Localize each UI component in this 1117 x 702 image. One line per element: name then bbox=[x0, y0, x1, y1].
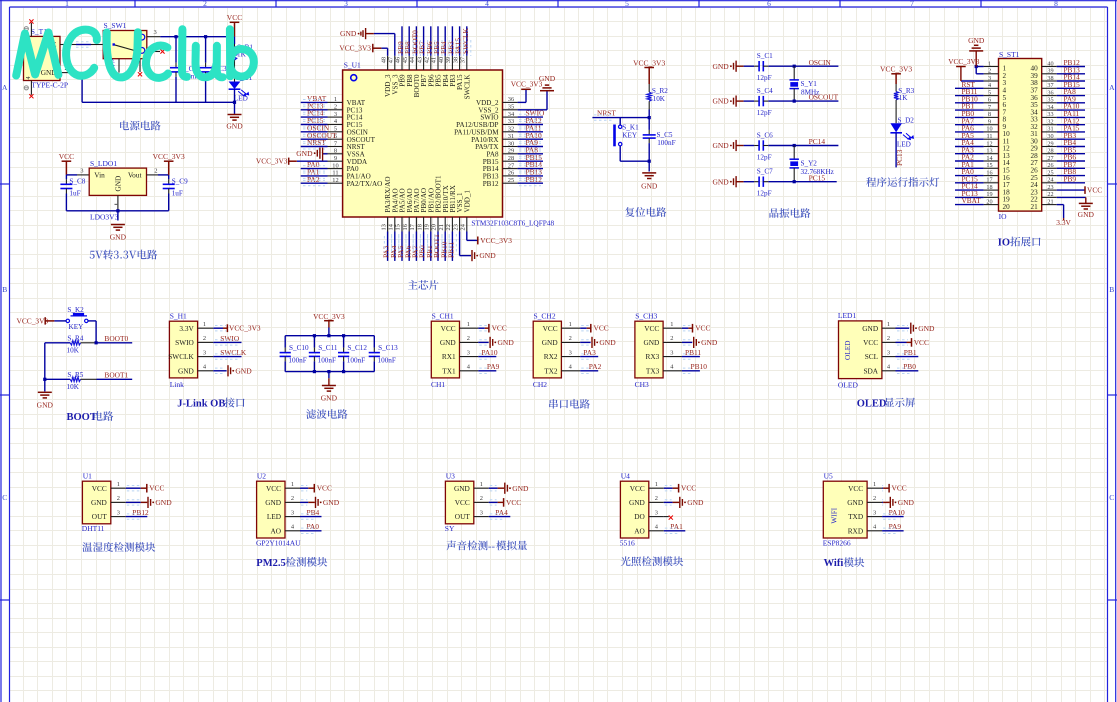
svg-text:VCC: VCC bbox=[543, 324, 558, 333]
svg-text:1: 1 bbox=[117, 481, 120, 488]
svg-text:GND: GND bbox=[712, 141, 729, 150]
power GND ldo bbox=[111, 225, 125, 231]
svg-text:SY: SY bbox=[445, 524, 455, 533]
svg-text:A: A bbox=[2, 83, 8, 92]
svg-text:VCC: VCC bbox=[914, 338, 929, 347]
svg-text:PA10: PA10 bbox=[889, 508, 905, 517]
svg-text:21: 21 bbox=[1031, 203, 1039, 211]
svg-text:TX3: TX3 bbox=[646, 366, 660, 375]
svg-text:U3: U3 bbox=[446, 471, 455, 480]
svg-text:3.3V: 3.3V bbox=[179, 324, 194, 333]
svg-text:S_Y1: S_Y1 bbox=[801, 80, 818, 88]
svg-text:OLED: OLED bbox=[843, 341, 852, 360]
svg-text:2: 2 bbox=[203, 0, 207, 8]
svg-text:--: -- bbox=[488, 541, 495, 552]
svg-text:U1: U1 bbox=[83, 471, 92, 480]
power VCC_3V3 vdd2 bbox=[518, 101, 526, 103]
svg-text:14: 14 bbox=[986, 155, 992, 162]
svg-text:12: 12 bbox=[986, 140, 992, 147]
module U2 GP2Y1014AU bbox=[257, 481, 285, 538]
T1 top pin bbox=[30, 23, 32, 37]
svg-text:S_R5: S_R5 bbox=[67, 371, 83, 379]
svg-text:GND: GND bbox=[498, 338, 515, 347]
svg-text:4: 4 bbox=[988, 82, 991, 89]
connector LED1 OLED bbox=[839, 321, 882, 379]
svg-text:1: 1 bbox=[569, 321, 572, 328]
wire oled sda bbox=[896, 370, 919, 372]
svg-text:PA9: PA9 bbox=[487, 362, 500, 371]
svg-text:S_ST1: S_ST1 bbox=[999, 50, 1020, 59]
svg-text:VCC: VCC bbox=[227, 13, 242, 22]
svg-text:100nF: 100nF bbox=[657, 139, 675, 147]
svg-text:3: 3 bbox=[117, 509, 120, 516]
svg-text:OSCOUT: OSCOUT bbox=[809, 93, 839, 102]
MCUclub logo bbox=[16, 29, 254, 78]
svg-text:2: 2 bbox=[887, 335, 890, 342]
svg-text:GND: GND bbox=[712, 62, 729, 71]
svg-text:GND: GND bbox=[712, 177, 729, 186]
svg-text:18: 18 bbox=[986, 184, 992, 191]
svg-text:40: 40 bbox=[438, 57, 445, 63]
svg-text:ESP8266: ESP8266 bbox=[823, 538, 851, 547]
svg-text:PA0: PA0 bbox=[307, 522, 320, 531]
svg-text:PC14: PC14 bbox=[809, 137, 826, 146]
svg-text:GND: GND bbox=[512, 484, 529, 493]
svg-text:S_LDO1: S_LDO1 bbox=[90, 159, 117, 168]
wire oled scl bbox=[896, 356, 919, 358]
svg-text:SWCLK: SWCLK bbox=[168, 352, 194, 361]
svg-text:11: 11 bbox=[987, 133, 993, 140]
capacitor S_C11 100nF bbox=[313, 336, 315, 348]
crystal S_Y2 32.768KHz bbox=[793, 146, 795, 160]
svg-text:PA2: PA2 bbox=[307, 175, 320, 184]
power VCC_3V3 jlink bbox=[213, 327, 223, 329]
ST1 left stubs and numbers bbox=[984, 66, 999, 68]
title boot bbox=[67, 411, 114, 423]
mcu S_U1 body bbox=[343, 70, 503, 217]
capacitor S_C4 12pF row OSCOUT bbox=[734, 96, 737, 107]
SW1 pin3 wire bbox=[147, 36, 161, 38]
wire ldo gnd bbox=[117, 195, 119, 210]
pushbutton S_K1 KEY bbox=[619, 125, 622, 128]
svg-text:S_C8: S_C8 bbox=[69, 177, 85, 185]
svg-text:100nF: 100nF bbox=[288, 357, 306, 365]
svg-text:16: 16 bbox=[402, 224, 409, 230]
svg-text:1: 1 bbox=[988, 60, 991, 67]
capacitor S_C7 12pF row PC15 bbox=[734, 176, 737, 187]
svg-text:VBAT: VBAT bbox=[962, 196, 982, 205]
mcu top pin names rotated bbox=[384, 74, 471, 100]
svg-text:12pF: 12pF bbox=[757, 109, 772, 117]
svg-text:8: 8 bbox=[988, 111, 991, 118]
module U5 ESP8266 wifi bbox=[823, 481, 867, 538]
svg-text:PA2: PA2 bbox=[589, 362, 602, 371]
title power block bbox=[120, 121, 161, 131]
svg-text:WIFI: WIFI bbox=[829, 507, 838, 523]
svg-text:3: 3 bbox=[203, 349, 206, 356]
svg-text:1: 1 bbox=[887, 321, 890, 328]
svg-text:VCC: VCC bbox=[848, 484, 863, 493]
svg-text:S_Y2: S_Y2 bbox=[801, 160, 818, 168]
title wifi bbox=[824, 557, 865, 569]
svg-text:SWCLK: SWCLK bbox=[463, 74, 471, 100]
svg-text:25: 25 bbox=[1047, 169, 1053, 176]
wire key bottom bbox=[619, 146, 621, 161]
svg-text:24: 24 bbox=[1047, 177, 1053, 184]
svg-text:J-Link OB: J-Link OB bbox=[177, 399, 225, 410]
svg-text:9: 9 bbox=[334, 155, 337, 162]
svg-text:VCC: VCC bbox=[455, 498, 470, 507]
svg-text:RX2: RX2 bbox=[544, 352, 558, 361]
mcu left pin stubs and numbers bbox=[328, 101, 343, 103]
svg-text:6: 6 bbox=[988, 97, 991, 104]
svg-text:TYPE-C-2P: TYPE-C-2P bbox=[31, 81, 68, 90]
svg-text:S_CH1: S_CH1 bbox=[432, 312, 454, 321]
title runled bbox=[866, 177, 939, 187]
svg-text:41: 41 bbox=[431, 57, 438, 63]
svg-text:32: 32 bbox=[1047, 119, 1053, 126]
svg-text:NRST: NRST bbox=[597, 108, 616, 117]
svg-text:17: 17 bbox=[409, 223, 416, 230]
svg-text:10K: 10K bbox=[67, 347, 80, 355]
svg-text:VCC: VCC bbox=[92, 484, 107, 493]
title dht11 bbox=[82, 542, 155, 552]
svg-text:VCC: VCC bbox=[59, 152, 74, 161]
svg-text:10K: 10K bbox=[653, 95, 666, 103]
power VCC_3V3 vdd1 bbox=[466, 232, 468, 241]
svg-text:KEY: KEY bbox=[622, 132, 638, 140]
svg-text:RXD: RXD bbox=[848, 526, 863, 535]
wire ldo bottom rail bbox=[66, 210, 168, 212]
svg-text:PB11: PB11 bbox=[685, 348, 701, 357]
svg-text:GND: GND bbox=[110, 233, 127, 242]
wire cap to gnd reset bbox=[648, 160, 651, 163]
svg-text:10: 10 bbox=[986, 126, 992, 133]
svg-text:22: 22 bbox=[1047, 191, 1053, 198]
connector S_CH2 bbox=[533, 321, 561, 378]
svg-text:GND: GND bbox=[687, 498, 704, 507]
svg-text:PB4: PB4 bbox=[307, 508, 320, 517]
zone labels bbox=[2, 0, 1115, 502]
svg-text:31: 31 bbox=[508, 133, 514, 140]
svg-text:GND: GND bbox=[454, 484, 470, 493]
svg-text:33: 33 bbox=[1047, 111, 1053, 118]
svg-text:44: 44 bbox=[409, 56, 416, 63]
svg-text:GND: GND bbox=[542, 338, 558, 347]
wire vcc to ldo vin bbox=[66, 174, 77, 176]
svg-text:C: C bbox=[1109, 493, 1114, 502]
svg-text:TXD: TXD bbox=[848, 512, 863, 521]
svg-text:PB0: PB0 bbox=[903, 362, 916, 371]
wire key2 left bbox=[54, 320, 66, 322]
svg-text:GND: GND bbox=[114, 176, 123, 192]
svg-text:S_C4: S_C4 bbox=[757, 87, 773, 95]
ST1 right net wires bbox=[1057, 66, 1085, 68]
svg-text:IO: IO bbox=[998, 238, 1010, 249]
LED S_D2 bbox=[890, 123, 902, 132]
svg-text:3: 3 bbox=[154, 29, 157, 36]
svg-text:SWCLK: SWCLK bbox=[461, 27, 470, 54]
LED S_D1 bbox=[229, 82, 241, 90]
svg-text:CH3: CH3 bbox=[635, 380, 649, 389]
svg-text:LED1: LED1 bbox=[838, 311, 857, 320]
mcu pin names bbox=[347, 99, 500, 188]
mcu top net wires and labels bbox=[401, 26, 403, 56]
svg-text:Vout: Vout bbox=[128, 171, 142, 180]
svg-text:OUT: OUT bbox=[92, 512, 108, 521]
svg-text:12pF: 12pF bbox=[757, 190, 772, 198]
svg-text:CH1: CH1 bbox=[431, 380, 445, 389]
svg-text:47: 47 bbox=[388, 56, 395, 63]
wire LED to GND bbox=[234, 89, 236, 114]
svg-text:VCC: VCC bbox=[695, 324, 710, 333]
power GND st1 pin22 bbox=[1057, 196, 1086, 198]
regulator S_LDO1 LDO3V3 bbox=[89, 168, 146, 195]
svg-text:VDD_1: VDD_1 bbox=[463, 190, 471, 213]
svg-text:GND: GND bbox=[1078, 210, 1095, 219]
svg-text:30: 30 bbox=[508, 140, 514, 147]
title reset bbox=[625, 207, 666, 217]
svg-text:S_C13: S_C13 bbox=[378, 344, 398, 352]
svg-text:VCC: VCC bbox=[266, 484, 281, 493]
svg-text:GND: GND bbox=[323, 498, 340, 507]
svg-text:GND: GND bbox=[91, 498, 107, 507]
svg-text:S_C12: S_C12 bbox=[347, 344, 367, 352]
svg-text:45: 45 bbox=[402, 57, 409, 63]
svg-text:3: 3 bbox=[670, 349, 673, 356]
svg-text:24: 24 bbox=[460, 223, 467, 230]
svg-text:35: 35 bbox=[1047, 97, 1053, 104]
svg-text:20: 20 bbox=[986, 198, 992, 205]
svg-text:VCC_3V3: VCC_3V3 bbox=[256, 156, 288, 165]
svg-text:1: 1 bbox=[480, 481, 483, 488]
svg-text:100nF: 100nF bbox=[347, 357, 365, 365]
svg-text:40: 40 bbox=[1047, 60, 1053, 67]
svg-text:GND: GND bbox=[641, 181, 658, 190]
svg-text:U5: U5 bbox=[824, 471, 833, 480]
power VCC_3V3 runled bbox=[891, 74, 901, 84]
svg-text:GND: GND bbox=[629, 498, 645, 507]
resistor S_R4 10K bbox=[45, 342, 70, 344]
svg-text:2: 2 bbox=[670, 335, 673, 342]
svg-text:3: 3 bbox=[988, 75, 991, 82]
svg-text:11: 11 bbox=[332, 170, 338, 177]
switch S_SW1 bbox=[103, 31, 147, 59]
svg-text:DHT11: DHT11 bbox=[82, 524, 105, 533]
svg-text:19: 19 bbox=[986, 191, 992, 198]
svg-text:PC15: PC15 bbox=[809, 173, 826, 182]
svg-text:S_K2: S_K2 bbox=[67, 306, 84, 314]
svg-text:SWIO: SWIO bbox=[175, 338, 194, 347]
wire key top bbox=[619, 118, 621, 125]
capacitor S_C5 100nF bbox=[648, 118, 650, 130]
svg-text:2: 2 bbox=[655, 495, 658, 502]
ST1 right stubs and numbers bbox=[1042, 66, 1057, 68]
svg-text:7: 7 bbox=[910, 0, 914, 8]
svg-text:U4: U4 bbox=[621, 471, 630, 480]
title ldo block bbox=[90, 250, 158, 260]
svg-text:16: 16 bbox=[986, 169, 992, 176]
power GND filter bbox=[322, 386, 336, 392]
svg-text:2: 2 bbox=[154, 167, 157, 174]
capacitor S_C6 12pF row PC14 bbox=[734, 140, 737, 151]
svg-text:VCC_3V3: VCC_3V3 bbox=[339, 43, 371, 52]
svg-text:B: B bbox=[2, 285, 7, 294]
svg-text:3: 3 bbox=[480, 509, 483, 516]
svg-text:12pF: 12pF bbox=[757, 154, 772, 162]
svg-text:35: 35 bbox=[508, 104, 514, 111]
svg-text:26: 26 bbox=[508, 170, 514, 177]
svg-text:28: 28 bbox=[1047, 148, 1053, 155]
svg-text:STM32F103C8T6_LQFP48: STM32F103C8T6_LQFP48 bbox=[471, 218, 554, 227]
power VCC_3V3 ldo out bbox=[164, 161, 174, 175]
svg-text:GND: GND bbox=[599, 338, 616, 347]
svg-text:PA3: PA3 bbox=[583, 348, 596, 357]
title sound bbox=[446, 541, 527, 553]
module U3 SY sound bbox=[445, 481, 473, 524]
svg-text:38: 38 bbox=[1047, 75, 1053, 82]
capacitor S_C10 100nF bbox=[284, 336, 286, 348]
svg-text:SWCLK: SWCLK bbox=[220, 348, 247, 357]
mcu bottom net wires and labels bbox=[387, 232, 389, 261]
power GND oled bbox=[896, 327, 910, 329]
svg-text:3.3V: 3.3V bbox=[1056, 218, 1071, 227]
title serial bbox=[549, 399, 590, 409]
svg-text:43: 43 bbox=[416, 57, 423, 63]
svg-text:S_C10: S_C10 bbox=[289, 344, 309, 352]
svg-text:10K: 10K bbox=[67, 383, 80, 391]
svg-text:GND: GND bbox=[37, 400, 54, 409]
svg-text:7: 7 bbox=[988, 104, 991, 111]
svg-text:39: 39 bbox=[1047, 68, 1053, 75]
svg-text:GND: GND bbox=[235, 366, 252, 375]
svg-text:VCC_3V3: VCC_3V3 bbox=[948, 57, 980, 66]
svg-text:Wifi: Wifi bbox=[824, 558, 844, 569]
svg-text:S_C6: S_C6 bbox=[757, 131, 773, 139]
svg-text:2: 2 bbox=[203, 335, 206, 342]
svg-text:GND: GND bbox=[918, 324, 935, 333]
capacitor S_C2 100nF bbox=[175, 37, 177, 63]
title light bbox=[621, 556, 683, 566]
power VCC_3V3 vdd3 bbox=[387, 48, 389, 56]
svg-text:VCC_3V3: VCC_3V3 bbox=[480, 236, 512, 245]
power GND vss2 bbox=[518, 109, 547, 111]
svg-text:36: 36 bbox=[508, 96, 514, 103]
svg-text:NRST: NRST bbox=[307, 138, 326, 147]
svg-text:GND: GND bbox=[226, 122, 243, 131]
power 3.3V st1 pin21 bbox=[1057, 204, 1064, 206]
wire filter bottom rail bbox=[285, 371, 374, 373]
svg-text:C: C bbox=[2, 493, 7, 502]
resistor S_R5 10K bbox=[45, 378, 70, 380]
svg-text:1: 1 bbox=[670, 321, 673, 328]
svg-text:15: 15 bbox=[395, 224, 402, 230]
svg-text:VCC: VCC bbox=[317, 484, 332, 493]
power GND st1 pin1 pin2 bbox=[976, 66, 983, 68]
svg-text:42: 42 bbox=[424, 57, 431, 63]
svg-text:S_U1: S_U1 bbox=[344, 61, 361, 70]
svg-text:GND: GND bbox=[643, 338, 659, 347]
svg-text:8: 8 bbox=[1054, 0, 1058, 8]
svg-text:1K: 1K bbox=[899, 94, 909, 102]
title filter bbox=[306, 409, 347, 419]
svg-text:20: 20 bbox=[1003, 203, 1011, 211]
svg-text:VCC: VCC bbox=[149, 484, 164, 493]
svg-text:9: 9 bbox=[988, 119, 991, 126]
svg-text:GND: GND bbox=[701, 338, 718, 347]
power GND vss3 bbox=[394, 34, 396, 56]
connector S_H1 JLink bbox=[169, 321, 197, 378]
wire boot left vertical bbox=[44, 343, 46, 392]
svg-text:34: 34 bbox=[1047, 104, 1053, 111]
wire T1 pin1 to SW1 bbox=[60, 44, 76, 46]
svg-text:AO: AO bbox=[634, 526, 645, 535]
svg-text:U2: U2 bbox=[257, 471, 266, 480]
svg-text:VCC: VCC bbox=[644, 324, 659, 333]
svg-text:31: 31 bbox=[1047, 126, 1053, 133]
svg-text:32: 32 bbox=[508, 126, 514, 133]
resistor S_R3 1K bbox=[895, 84, 897, 92]
svg-text:VCC_3V3: VCC_3V3 bbox=[229, 324, 261, 333]
svg-text:PB11: PB11 bbox=[447, 242, 456, 258]
svg-text:37: 37 bbox=[1047, 82, 1053, 89]
svg-text:GND: GND bbox=[862, 324, 878, 333]
svg-text:LDO3V3: LDO3V3 bbox=[90, 213, 119, 222]
svg-text:20: 20 bbox=[431, 224, 438, 230]
svg-text:S_D2: S_D2 bbox=[898, 116, 915, 124]
mcu left net wires and labels bbox=[301, 101, 328, 103]
svg-text:22: 22 bbox=[445, 224, 452, 230]
svg-text:15: 15 bbox=[986, 162, 992, 169]
title jlink bbox=[177, 398, 244, 410]
svg-text:GND: GND bbox=[968, 36, 985, 45]
svg-text:VCC_3V3: VCC_3V3 bbox=[153, 152, 185, 161]
mcu right pin stubs numbers wires labels bbox=[503, 101, 518, 103]
svg-text:VCC_3V3: VCC_3V3 bbox=[633, 58, 665, 67]
svg-text:46: 46 bbox=[395, 57, 402, 63]
wire bottom rail power block bbox=[82, 101, 234, 103]
svg-text:S_CH3: S_CH3 bbox=[635, 312, 657, 321]
svg-text:3: 3 bbox=[873, 509, 876, 516]
svg-text:17: 17 bbox=[986, 177, 992, 184]
svg-text:VCC: VCC bbox=[863, 338, 878, 347]
svg-text:PB9: PB9 bbox=[1064, 174, 1077, 183]
svg-text:PB12: PB12 bbox=[483, 180, 499, 188]
svg-text:8: 8 bbox=[334, 148, 337, 155]
SW1 bottom stubs bbox=[118, 59, 120, 73]
svg-text:LED: LED bbox=[897, 140, 911, 148]
power GND led bbox=[228, 115, 242, 121]
svg-text:1: 1 bbox=[467, 321, 470, 328]
connector S_T1 TYPE-C-2P bbox=[24, 27, 69, 89]
svg-text:AO: AO bbox=[270, 526, 281, 535]
svg-text:26: 26 bbox=[1047, 162, 1053, 169]
power GND vss1 bbox=[459, 232, 461, 256]
svg-text:2: 2 bbox=[467, 335, 470, 342]
mcu bottom pin names rotated bbox=[384, 175, 471, 213]
svg-text:GP2Y1014AU: GP2Y1014AU bbox=[256, 538, 301, 547]
svg-text:KEY: KEY bbox=[69, 323, 85, 331]
svg-text:13: 13 bbox=[380, 224, 387, 230]
wire swio bbox=[213, 341, 241, 343]
power VCC_3V3 reset bbox=[644, 68, 654, 85]
capacitor S_C9 1uF bbox=[168, 175, 170, 179]
svg-text:GND: GND bbox=[178, 366, 194, 375]
svg-text:VCC: VCC bbox=[506, 498, 521, 507]
svg-text:GND: GND bbox=[539, 74, 556, 83]
svg-text:33: 33 bbox=[508, 118, 514, 125]
svg-text:2: 2 bbox=[988, 68, 991, 75]
